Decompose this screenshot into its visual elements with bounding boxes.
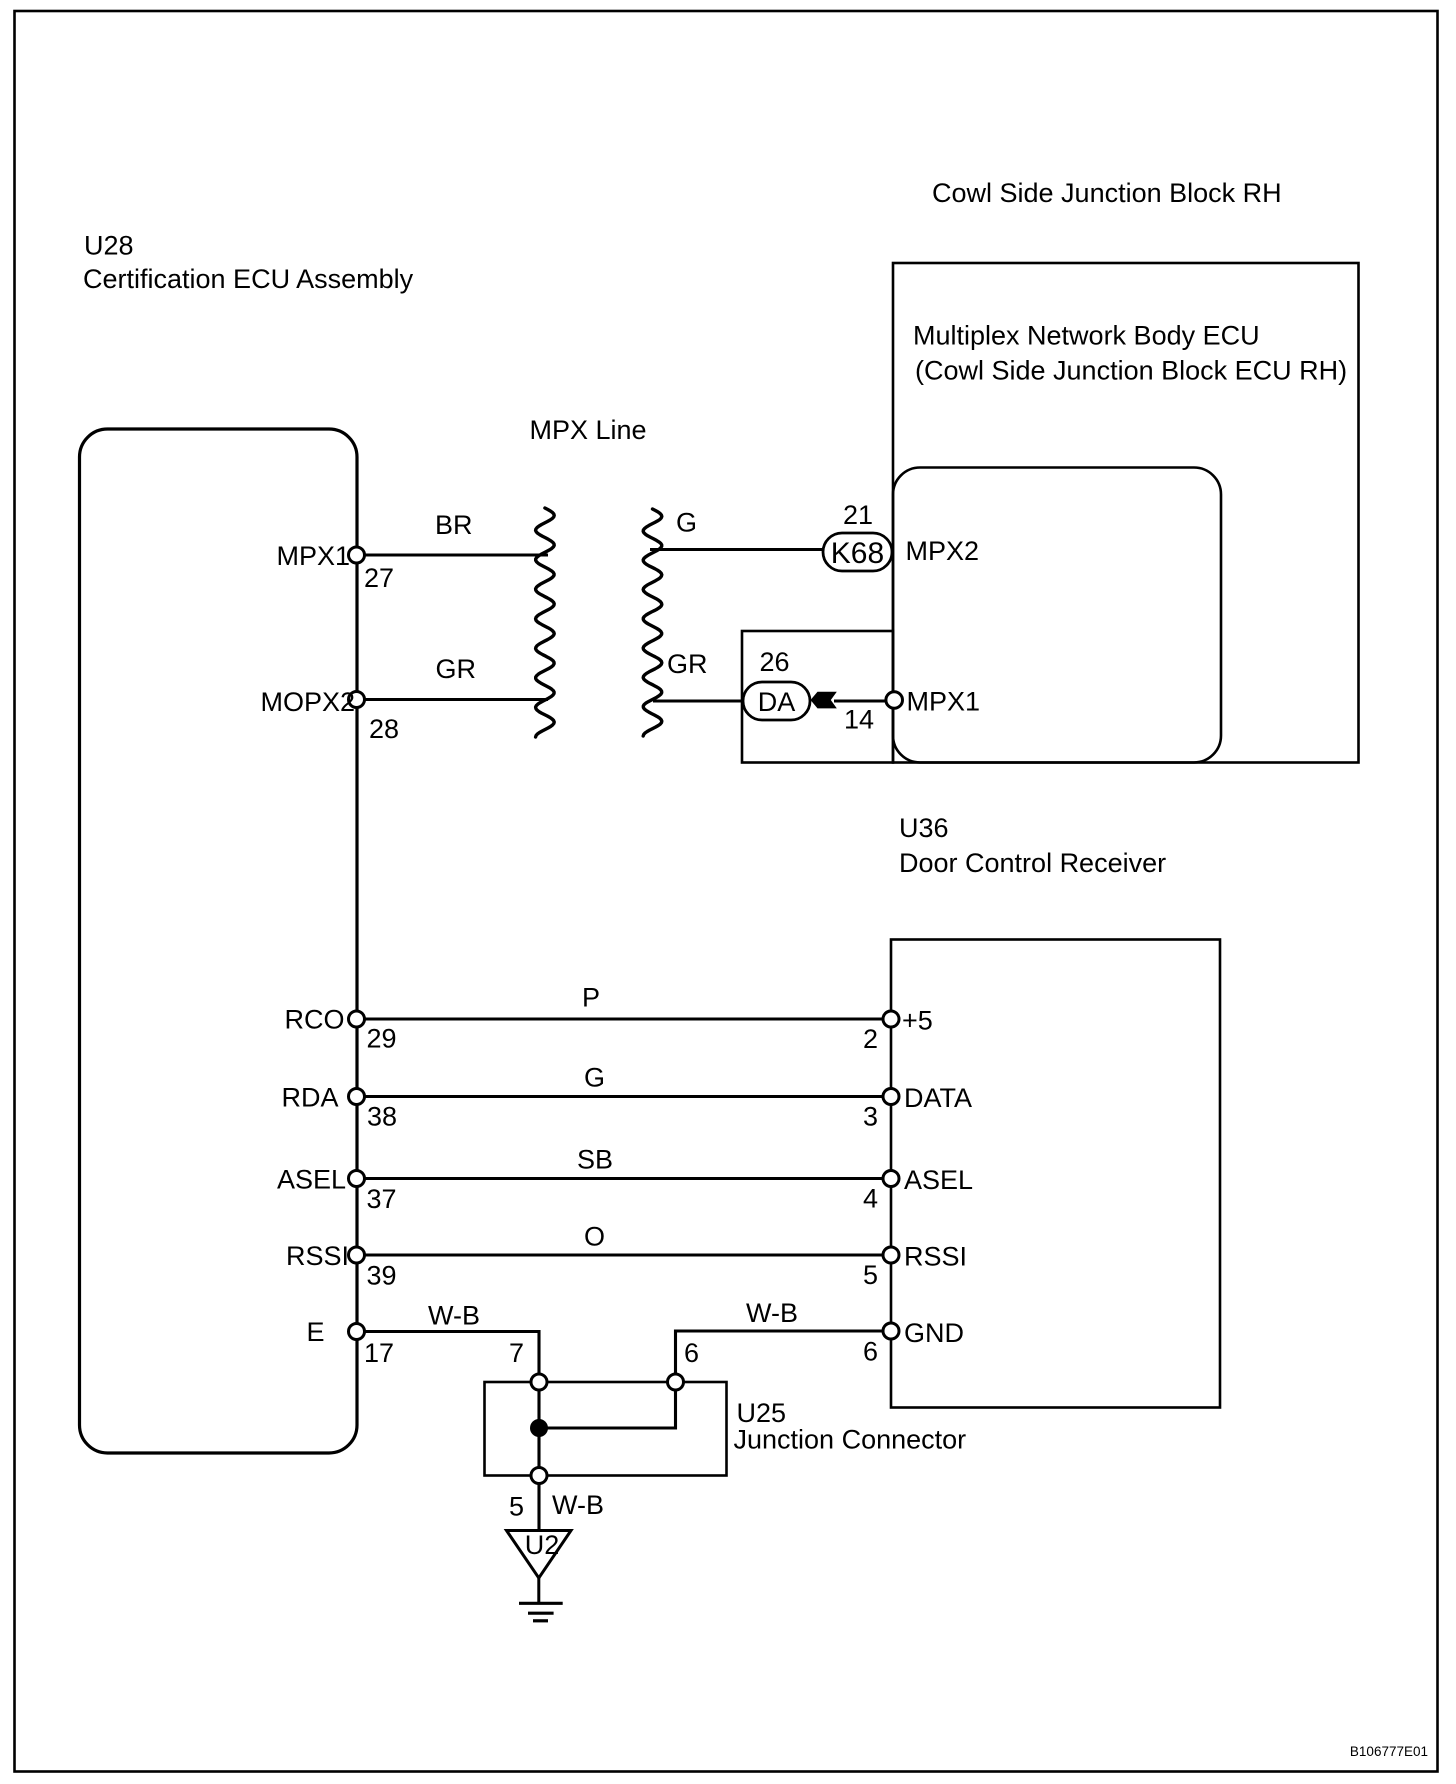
svg-text:G: G bbox=[584, 1063, 605, 1093]
svg-text:6: 6 bbox=[684, 1338, 699, 1368]
pin GND 6 bbox=[883, 1323, 899, 1339]
pin junction 5 bbox=[531, 1468, 547, 1484]
svg-text:SB: SB bbox=[577, 1145, 613, 1175]
svg-text:21: 21 bbox=[843, 500, 873, 530]
svg-text:28: 28 bbox=[369, 714, 399, 744]
wire MOPX2 pin28 to MPX line break (GR) bbox=[357, 698, 548, 701]
svg-text:U36: U36 bbox=[899, 813, 949, 843]
svg-text:6: 6 bbox=[863, 1337, 878, 1367]
svg-text:4: 4 bbox=[863, 1184, 878, 1214]
svg-text:39: 39 bbox=[367, 1261, 397, 1291]
wire junction pin7 through splice to pin5 bbox=[537, 1382, 540, 1476]
svg-text:Certification ECU Assembly: Certification ECU Assembly bbox=[83, 264, 414, 294]
svg-text:G: G bbox=[676, 508, 697, 538]
wire MPX1 pin27 to MPX line break (BR) bbox=[357, 553, 548, 556]
svg-text:MPX1: MPX1 bbox=[276, 541, 350, 571]
wire triangle apex to earth bbox=[537, 1578, 540, 1603]
pin MPX1 14 (body ECU) bbox=[886, 692, 903, 709]
svg-text:ASEL: ASEL bbox=[277, 1165, 346, 1195]
svg-text:W-B: W-B bbox=[428, 1301, 480, 1331]
svg-text:E: E bbox=[306, 1317, 324, 1347]
svg-text:MPX1: MPX1 bbox=[907, 687, 981, 717]
svg-text:K68: K68 bbox=[831, 537, 884, 570]
svg-text:38: 38 bbox=[367, 1102, 397, 1132]
svg-text:26: 26 bbox=[760, 647, 790, 677]
svg-text:DATA: DATA bbox=[904, 1083, 972, 1113]
svg-text:RSSI: RSSI bbox=[286, 1241, 349, 1271]
pin junction 7 bbox=[531, 1374, 547, 1390]
svg-text:DA: DA bbox=[758, 687, 796, 717]
wire MPX line break to DA (GR) bbox=[653, 699, 745, 702]
svg-text:RDA: RDA bbox=[281, 1083, 338, 1113]
pin +5 2 bbox=[883, 1011, 899, 1027]
svg-text:5: 5 bbox=[509, 1492, 524, 1522]
svg-text:W-B: W-B bbox=[746, 1298, 798, 1328]
svg-text:29: 29 bbox=[367, 1024, 397, 1054]
svg-text:GR: GR bbox=[436, 654, 477, 684]
svg-text:3: 3 bbox=[863, 1102, 878, 1132]
MPX line twisted-pair break squiggle left bbox=[536, 508, 555, 737]
connector K68 oval bbox=[823, 533, 892, 571]
svg-text:Door Control Receiver: Door Control Receiver bbox=[899, 848, 1166, 878]
svg-text:27: 27 bbox=[364, 563, 394, 593]
svg-text:P: P bbox=[582, 983, 600, 1013]
svg-text:U2: U2 bbox=[525, 1530, 560, 1560]
connector DA oval bbox=[743, 682, 810, 720]
svg-text:GR: GR bbox=[667, 649, 708, 679]
svg-text:U28: U28 bbox=[84, 231, 134, 261]
svg-text:MOPX2: MOPX2 bbox=[260, 687, 355, 717]
wire ASEL pin37 to ASEL pin4 (SB) bbox=[357, 1177, 891, 1180]
pin RSSI 39 bbox=[349, 1247, 365, 1263]
wire MPX line break to K68 (G) bbox=[650, 548, 825, 551]
Multiplex Network Body ECU rounded body bbox=[893, 468, 1221, 763]
svg-text:17: 17 bbox=[364, 1338, 394, 1368]
pin RDA 38 bbox=[349, 1089, 365, 1105]
svg-text:14: 14 bbox=[844, 705, 874, 735]
svg-text:BR: BR bbox=[435, 510, 473, 540]
svg-text:U25: U25 bbox=[737, 1398, 787, 1428]
svg-text:RSSI: RSSI bbox=[904, 1242, 967, 1272]
ECU U28 Certification ECU Assembly body bbox=[80, 429, 358, 1453]
svg-text:5: 5 bbox=[863, 1260, 878, 1290]
svg-text:RCO: RCO bbox=[285, 1005, 345, 1035]
arrow into DA bbox=[811, 692, 837, 709]
svg-text:Multiplex Network Body ECU: Multiplex Network Body ECU bbox=[913, 321, 1260, 351]
splice junction dot bbox=[530, 1419, 548, 1437]
svg-text:Cowl Side Junction Block RH: Cowl Side Junction Block RH bbox=[932, 178, 1282, 208]
svg-text:MPX Line: MPX Line bbox=[530, 415, 647, 445]
svg-text:O: O bbox=[584, 1222, 605, 1252]
pin MOPX2 28 bbox=[349, 692, 365, 708]
svg-text:7: 7 bbox=[509, 1338, 524, 1368]
wire GND pin6 to junction connector pin6 (W-B) bbox=[676, 1331, 892, 1382]
pin E 17 bbox=[349, 1324, 365, 1340]
pin RSSI 5 bbox=[883, 1247, 899, 1263]
svg-text:MPX2: MPX2 bbox=[906, 536, 980, 566]
wire junction pin5 to ground triangle (W-B) bbox=[537, 1476, 540, 1531]
Door Control Receiver U36 body bbox=[891, 940, 1220, 1408]
MPX line twisted-pair break squiggle right bbox=[643, 509, 662, 736]
svg-text:37: 37 bbox=[367, 1184, 397, 1214]
svg-text:2: 2 bbox=[863, 1024, 878, 1054]
svg-text:Junction Connector: Junction Connector bbox=[734, 1425, 967, 1455]
wire RDA pin38 to DATA pin3 (G) bbox=[357, 1095, 891, 1098]
DA connector enclosure box bbox=[742, 631, 893, 763]
wire DA arrow to MPX1 pin14 bbox=[834, 699, 895, 702]
earth ground bars bbox=[519, 1602, 563, 1605]
wire junction connector internal bus bbox=[539, 1382, 676, 1428]
pin MPX1 27 bbox=[349, 547, 365, 563]
svg-text:W-B: W-B bbox=[552, 1490, 604, 1520]
pin DATA 3 bbox=[883, 1089, 899, 1105]
svg-text:GND: GND bbox=[904, 1318, 964, 1348]
ground triangle U2 bbox=[507, 1531, 572, 1579]
wire RCO pin29 to +5 pin2 (P) bbox=[357, 1017, 891, 1020]
pin ASEL 4 bbox=[883, 1171, 899, 1187]
pin junction 6 bbox=[668, 1374, 684, 1390]
wire E pin17 to junction connector pin7 (W-B) bbox=[357, 1332, 539, 1383]
Cowl Side Junction Block RH outer box bbox=[893, 263, 1359, 763]
wire RSSI pin39 to RSSI pin5 (O) bbox=[357, 1253, 891, 1256]
pin ASEL 37 bbox=[349, 1171, 365, 1187]
svg-text:B106777E01: B106777E01 bbox=[1350, 1744, 1428, 1759]
svg-text:+5: +5 bbox=[902, 1006, 933, 1036]
pin RCO 29 bbox=[349, 1011, 365, 1027]
svg-text:ASEL: ASEL bbox=[904, 1165, 973, 1195]
Junction Connector U25 body bbox=[485, 1382, 727, 1476]
svg-text:(Cowl Side Junction Block ECU: (Cowl Side Junction Block ECU RH) bbox=[915, 356, 1347, 386]
